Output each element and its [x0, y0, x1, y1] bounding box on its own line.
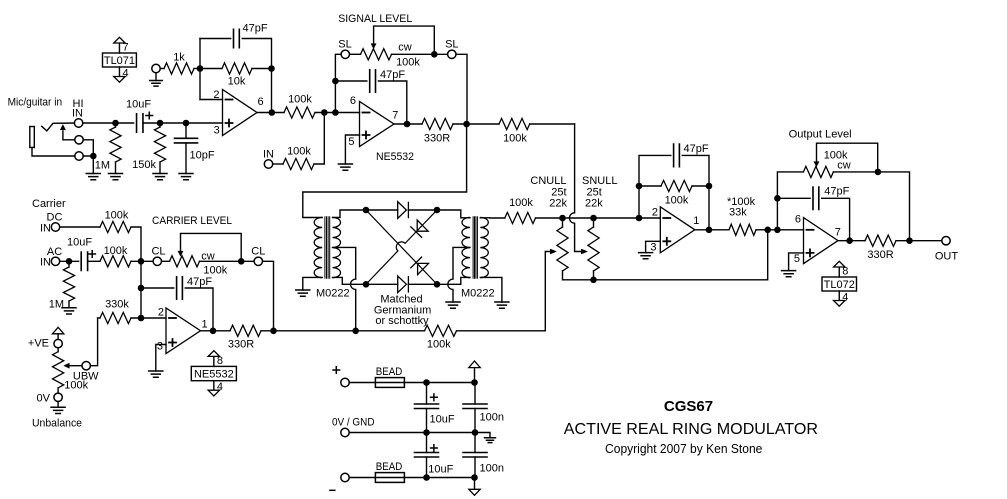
- svg-text:CARRIER LEVEL: CARRIER LEVEL: [152, 215, 232, 227]
- svg-text:100k: 100k: [203, 264, 227, 276]
- svg-text:M0222: M0222: [316, 287, 350, 299]
- svg-text:33k: 33k: [729, 206, 747, 218]
- svg-text:4: 4: [122, 67, 128, 79]
- svg-text:22k: 22k: [585, 198, 603, 210]
- svg-text:10k: 10k: [228, 76, 246, 88]
- svg-text:M0222: M0222: [461, 287, 495, 299]
- svg-text:47pF: 47pF: [243, 23, 268, 35]
- svg-text:cw: cw: [398, 42, 412, 54]
- svg-text:100k: 100k: [64, 380, 88, 392]
- svg-text:47pF: 47pF: [684, 143, 709, 155]
- svg-text:cw: cw: [201, 250, 215, 262]
- svg-text:10uF: 10uF: [67, 236, 92, 248]
- svg-text:150k: 150k: [132, 159, 156, 171]
- svg-text:6: 6: [258, 96, 264, 108]
- svg-text:47pF: 47pF: [380, 69, 405, 81]
- svg-text:TL071: TL071: [104, 55, 135, 67]
- svg-text:0V / GND: 0V / GND: [332, 416, 375, 428]
- svg-text:100k: 100k: [427, 338, 451, 350]
- svg-text:OUT: OUT: [935, 250, 959, 262]
- svg-text:IN: IN: [40, 222, 51, 234]
- svg-text:4: 4: [842, 291, 848, 303]
- svg-text:7: 7: [835, 227, 841, 239]
- svg-text:8: 8: [842, 266, 848, 278]
- svg-text:10uF: 10uF: [430, 413, 455, 425]
- svg-text:SNULL: SNULL: [582, 175, 617, 187]
- svg-text:100k: 100k: [509, 197, 533, 209]
- svg-text:CL: CL: [151, 246, 165, 258]
- svg-text:6: 6: [350, 95, 356, 107]
- svg-text:CNULL: CNULL: [530, 175, 566, 187]
- svg-text:6: 6: [795, 214, 801, 226]
- svg-text:CGS67: CGS67: [664, 398, 713, 415]
- svg-text:5: 5: [794, 253, 800, 265]
- svg-text:IN: IN: [72, 107, 83, 119]
- svg-text:7: 7: [392, 109, 398, 121]
- svg-text:1k: 1k: [173, 52, 185, 64]
- svg-text:Output Level: Output Level: [789, 129, 852, 141]
- svg-text:100k: 100k: [503, 133, 527, 145]
- svg-text:1M: 1M: [49, 298, 64, 310]
- svg-text:NE5532: NE5532: [194, 369, 234, 381]
- svg-text:BEAD: BEAD: [376, 461, 403, 473]
- svg-text:100n: 100n: [480, 462, 504, 474]
- svg-text:100k: 100k: [287, 145, 311, 157]
- svg-text:10uF: 10uF: [126, 98, 151, 110]
- svg-text:3: 3: [157, 340, 163, 352]
- svg-text:SL: SL: [445, 38, 458, 50]
- svg-text:100k: 100k: [665, 194, 689, 206]
- svg-text:SL: SL: [338, 38, 351, 50]
- svg-text:7: 7: [122, 42, 128, 54]
- svg-text:Unbalance: Unbalance: [32, 417, 82, 429]
- svg-text:+VE: +VE: [28, 338, 49, 350]
- svg-text:1: 1: [693, 215, 699, 227]
- svg-text:25t: 25t: [587, 186, 602, 198]
- svg-text:100k: 100k: [396, 57, 420, 69]
- svg-text:3: 3: [214, 125, 220, 137]
- svg-text:100k: 100k: [104, 245, 128, 257]
- svg-text:8: 8: [217, 355, 223, 367]
- svg-text:Copyright 2007 by Ken Stone: Copyright 2007 by Ken Stone: [605, 442, 762, 456]
- svg-text:2: 2: [652, 206, 658, 218]
- svg-text:1M: 1M: [95, 160, 110, 172]
- svg-text:CL: CL: [251, 246, 265, 258]
- svg-text:IN: IN: [40, 256, 51, 268]
- svg-text:Matched: Matched: [380, 293, 422, 305]
- svg-text:or schottky: or schottky: [375, 315, 429, 327]
- svg-text:ACTIVE REAL RING MODULATOR: ACTIVE REAL RING MODULATOR: [564, 421, 818, 438]
- svg-text:2: 2: [213, 89, 219, 101]
- svg-text:IN: IN: [263, 148, 274, 160]
- svg-text:10uF: 10uF: [428, 463, 453, 475]
- svg-text:2: 2: [158, 306, 164, 318]
- svg-text:100k: 100k: [105, 209, 129, 221]
- svg-text:cw: cw: [837, 160, 851, 172]
- svg-text:0V: 0V: [37, 392, 51, 404]
- svg-text:BEAD: BEAD: [376, 366, 403, 378]
- svg-text:Mic/guitar in: Mic/guitar in: [8, 96, 63, 108]
- svg-text:25t: 25t: [551, 186, 566, 198]
- svg-text:4: 4: [217, 381, 223, 393]
- svg-text:10pF: 10pF: [190, 149, 215, 161]
- svg-text:NE5532: NE5532: [376, 151, 414, 163]
- svg-text:100n: 100n: [480, 411, 504, 423]
- svg-text:100k: 100k: [288, 93, 312, 105]
- svg-text:3: 3: [650, 241, 656, 253]
- svg-text:5: 5: [348, 136, 354, 148]
- svg-text:47pF: 47pF: [187, 276, 212, 288]
- svg-text:22k: 22k: [549, 198, 567, 210]
- svg-text:330R: 330R: [867, 249, 893, 261]
- svg-text:SIGNAL LEVEL: SIGNAL LEVEL: [338, 13, 412, 25]
- svg-text:TL072: TL072: [824, 279, 855, 291]
- svg-text:330k: 330k: [105, 298, 129, 310]
- svg-text:Carrier: Carrier: [32, 198, 66, 210]
- svg-text:330R: 330R: [424, 132, 450, 144]
- svg-text:47pF: 47pF: [824, 186, 849, 198]
- svg-text:330R: 330R: [228, 338, 254, 350]
- svg-text:1: 1: [202, 318, 208, 330]
